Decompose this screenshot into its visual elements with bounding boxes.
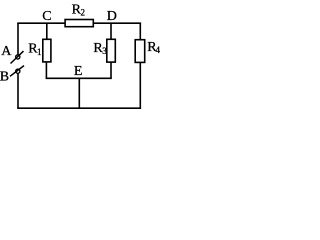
wire: right edge upper (corner to R4) (139, 23, 141, 40)
wire: bottom rail (17, 107, 141, 109)
wire: E bus (R1 bottom to R3 bottom) (46, 77, 112, 79)
svg-text:D: D (107, 9, 117, 24)
resistor R2 (65, 20, 93, 27)
wire: left edge lower (terminal B to bottom corner) (17, 73, 19, 108)
terminal B (10, 66, 24, 77)
svg-text:C: C (42, 9, 51, 24)
wire: top (C-D rail) (17, 22, 141, 24)
wire: R1 to E bus (45, 62, 47, 78)
wire: node D drop (110, 23, 112, 39)
wire: R3 to E bus (110, 62, 112, 78)
svg-text:B: B (0, 70, 9, 85)
resistor R1 (43, 39, 51, 62)
wire: node C drop (46, 23, 48, 39)
resistor R4 (135, 40, 145, 63)
wire: right edge lower (R4 to bottom corner) (139, 62, 141, 108)
wire: left edge upper (corner to terminal A) (17, 23, 19, 55)
resistor R3 (107, 39, 116, 62)
svg-text:E: E (74, 64, 83, 79)
wire: E drop to bottom rail (78, 78, 80, 108)
terminal A (11, 51, 24, 63)
svg-text:A: A (1, 44, 12, 59)
